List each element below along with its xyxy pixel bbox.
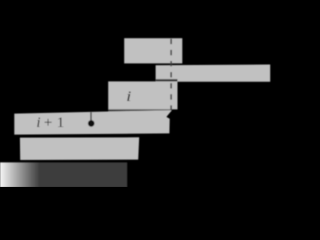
gradient bar (bottom)	[0, 162, 127, 187]
seam bar2/bar3	[156, 79, 178, 81]
dashed vertical line	[170, 39, 172, 111]
interval bar 1	[124, 38, 182, 63]
svg-text:i: i	[126, 88, 132, 105]
seam bar3/bar4	[108, 109, 171, 111]
interval bar 4 (i+1) with notched right end	[14, 110, 172, 135]
lollipop dot	[88, 120, 95, 127]
lollipop stem	[90, 112, 92, 121]
interval bar 3	[108, 81, 177, 109]
interval bar 2	[156, 65, 271, 82]
interval bar 5	[20, 137, 139, 160]
